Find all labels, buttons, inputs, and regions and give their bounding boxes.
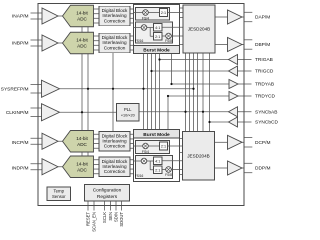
svg-text:SYNCbAB: SYNCbAB <box>255 109 277 115</box>
svg-text:FS/8: FS/8 <box>165 173 172 177</box>
svg-text:14-bit: 14-bit <box>76 38 88 43</box>
svg-text:SEN: SEN <box>108 212 113 221</box>
svg-text:2:1: 2:1 <box>161 145 166 149</box>
svg-text:SDOUT: SDOUT <box>119 212 124 227</box>
svg-text:RESET: RESET <box>86 212 91 226</box>
svg-text:CLKINP/M: CLKINP/M <box>6 110 29 116</box>
svg-text:Temp: Temp <box>53 189 64 194</box>
svg-text:×10/×20: ×10/×20 <box>121 114 135 118</box>
svg-text:SYNCbCD: SYNCbCD <box>255 120 278 126</box>
svg-text:Burst Mode: Burst Mode <box>143 132 170 138</box>
svg-text:Correction: Correction <box>104 169 126 174</box>
svg-text:TRDYCD: TRDYCD <box>255 94 276 100</box>
svg-text:FS/16: FS/16 <box>135 174 144 178</box>
svg-text:4:1: 4:1 <box>155 159 160 163</box>
svg-text:TRIGCD: TRIGCD <box>255 69 274 75</box>
svg-text:Correction: Correction <box>104 18 126 23</box>
svg-text:DCP/M: DCP/M <box>255 140 270 146</box>
svg-text:PLL: PLL <box>124 107 132 112</box>
svg-text:Sensor: Sensor <box>52 194 66 199</box>
svg-text:4:1: 4:1 <box>155 26 160 30</box>
svg-text:DDP/M: DDP/M <box>255 166 270 172</box>
svg-text:FS/8: FS/8 <box>165 39 172 43</box>
svg-text:INCP/M: INCP/M <box>12 140 29 146</box>
svg-text:14-bit: 14-bit <box>76 161 88 166</box>
svg-text:ADC: ADC <box>77 167 87 172</box>
svg-text:14-bit: 14-bit <box>76 136 88 141</box>
svg-text:ADC: ADC <box>77 44 87 49</box>
svg-text:2:1: 2:1 <box>155 35 160 39</box>
svg-text:TRDYAB: TRDYAB <box>255 82 274 88</box>
svg-text:SDIN: SDIN <box>114 212 119 222</box>
svg-text:JESD204B: JESD204B <box>188 27 210 32</box>
svg-text:2:1: 2:1 <box>161 11 166 15</box>
svg-text:Burst Mode: Burst Mode <box>143 48 170 54</box>
svg-text:Registers: Registers <box>97 194 118 200</box>
svg-text:ADC: ADC <box>77 17 87 22</box>
svg-text:DBP/M: DBP/M <box>255 42 270 48</box>
svg-text:INAP/M: INAP/M <box>12 14 29 20</box>
svg-text:INDP/M: INDP/M <box>12 166 29 172</box>
svg-text:TRIGAB: TRIGAB <box>255 57 273 63</box>
svg-text:JESD204B: JESD204B <box>187 154 209 159</box>
svg-text:FS/4: FS/4 <box>142 16 149 20</box>
svg-text:2:1: 2:1 <box>155 168 160 172</box>
svg-text:Correction: Correction <box>104 144 126 149</box>
svg-text:14-bit: 14-bit <box>76 11 88 16</box>
svg-text:FS/4: FS/4 <box>142 150 149 154</box>
svg-text:ADC: ADC <box>77 142 87 147</box>
svg-text:FS/16: FS/16 <box>135 39 144 43</box>
svg-text:Configuration: Configuration <box>93 187 122 193</box>
svg-text:SCLK: SCLK <box>102 212 107 223</box>
svg-text:DAP/M: DAP/M <box>255 15 270 21</box>
svg-text:INBP/M: INBP/M <box>12 41 29 47</box>
svg-text:Correction: Correction <box>104 45 126 50</box>
svg-text:SCAN_EN: SCAN_EN <box>92 212 97 232</box>
svg-text:SYSREFP/M: SYSREFP/M <box>1 86 29 92</box>
